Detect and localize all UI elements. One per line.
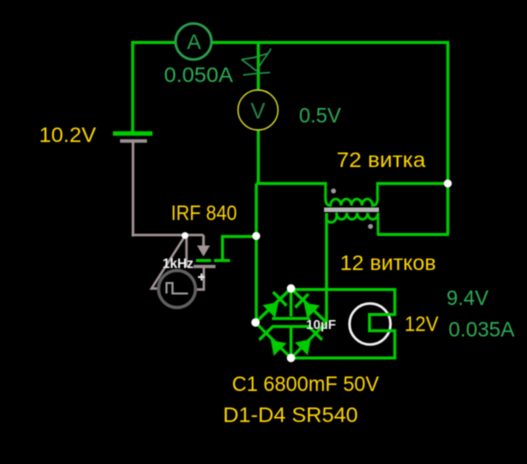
wire drain contact bar under arrow [196, 259, 211, 262]
wire transformer secondary left lead down to bridge right corner [325, 213, 328, 322]
transformer phase dot primary [331, 189, 336, 194]
svg-text:IRF 840: IRF 840 [171, 201, 237, 225]
diode bridge edge bottom-right [291, 323, 327, 359]
diode bridge edge top-left [256, 289, 292, 323]
transistor Q1 gate lead vertical [185, 236, 187, 267]
diode VD5 sketch left side [242, 60, 257, 72]
transistor Q1 arrow [197, 246, 210, 257]
lamp HL1 circle [350, 304, 391, 345]
wire source to generator [196, 268, 204, 290]
svg-text:12 витков: 12 витков [340, 251, 436, 275]
diode D2 triangle top-right [304, 303, 320, 319]
diode D2 cathode bar [295, 294, 308, 308]
battery negative plate [120, 139, 147, 143]
wire diagonal to generator [152, 236, 186, 289]
node junction dot bridge bottom [287, 354, 295, 362]
wire vertical from node down to bridge left corner [255, 184, 258, 323]
svg-text:D1-D4 SR540: D1-D4 SR540 [223, 403, 358, 427]
wire drain stub horizontal [222, 235, 257, 238]
node junction dot bridge left [251, 318, 259, 326]
voltmeter PV1 circle [238, 90, 278, 130]
svg-text:V: V [251, 99, 266, 124]
node junction dot right rail [444, 180, 452, 188]
wire top rail [132, 41, 449, 44]
transformer phase dot secondary [368, 224, 373, 229]
svg-text:0.5V: 0.5V [299, 104, 342, 128]
capacitor bottom plate [272, 325, 310, 328]
svg-text:0.035A: 0.035A [449, 318, 516, 342]
diode D3 triangle bottom-left [271, 340, 287, 356]
diode VD5 sketch zener tick [268, 49, 271, 54]
transformer T1 secondary winding [326, 213, 378, 235]
diode D3 cathode bar [259, 327, 273, 340]
svg-text:0.050A: 0.050A [164, 63, 234, 87]
diode VD5 sketch cathode bar [243, 73, 270, 76]
diode VD5 sketch top bar [242, 54, 269, 60]
wire diode branch top lead [257, 42, 260, 92]
svg-text:10µF: 10µF [306, 317, 336, 332]
capacitor top plate [272, 317, 310, 320]
svg-text:A: A [187, 31, 201, 54]
diode VD5 sketch right side [257, 54, 269, 72]
generator plus sign [198, 274, 205, 281]
wire gray down to mosfet arrow [202, 235, 205, 247]
transformer T1 core [324, 208, 379, 213]
capacitor lead from bridge top [290, 289, 293, 317]
svg-text:10.2V: 10.2V [39, 123, 97, 147]
capacitor lead to bridge bottom [290, 328, 293, 358]
diode bridge edge top-right [291, 289, 327, 323]
wire lamp loop with socket notch [291, 290, 395, 359]
diode bridge edge bottom-left [256, 323, 292, 359]
wire node to transformer primary left [256, 182, 327, 185]
wire drain bar [214, 259, 230, 262]
svg-text:9.4V: 9.4V [447, 286, 490, 310]
wire right vertical rail [446, 41, 449, 234]
diode D4 triangle bottom-right [295, 339, 311, 355]
node junction dot drain [252, 232, 260, 240]
svg-text:1kHz: 1kHz [163, 255, 194, 271]
wire secondary right horizontal [377, 233, 449, 236]
svg-text:12V: 12V [405, 312, 440, 336]
wire drain stub vertical [221, 235, 224, 260]
node junction dot bridge top [287, 284, 295, 292]
node junction dot gate [182, 232, 189, 239]
battery positive plate [113, 131, 153, 136]
ammeter PA1 circle [176, 24, 212, 60]
wire voltmeter bottom lead [257, 129, 260, 184]
wire left vertical from rail to battery [131, 41, 134, 132]
generator G1 square wave glyph [167, 283, 189, 294]
transistor Q1 source bar [194, 265, 216, 268]
wire primary right horizontal [377, 182, 449, 185]
wire battery negative down [132, 143, 135, 237]
svg-text:72 витка: 72 витка [337, 148, 426, 172]
generator G1 circle [159, 271, 196, 308]
diode D1 triangle top-left [263, 302, 279, 318]
wire gray horizontal to gate node [132, 234, 204, 237]
diode D1 cathode bar [273, 292, 286, 306]
transformer T1 primary winding [326, 182, 378, 206]
diode D4 cathode bar [309, 326, 322, 339]
svg-text:C1 6800mF 50V: C1 6800mF 50V [232, 372, 380, 396]
